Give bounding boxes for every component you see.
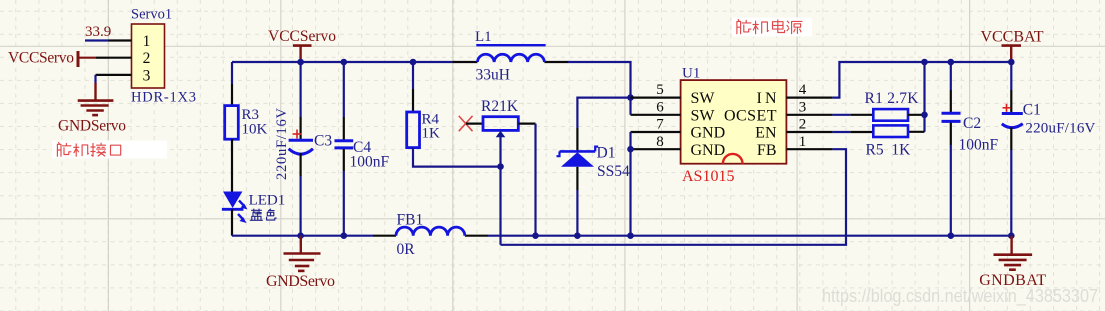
svg-text:6: 6: [656, 99, 664, 115]
U1 designator: [682, 66, 700, 82]
svg-text:IN: IN: [757, 90, 777, 107]
svg-text:VCCServo: VCCServo: [8, 50, 74, 67]
ground rail right segment: [488, 235, 1011, 237]
potentiometer R2 designator/value R21K: [481, 98, 519, 115]
capacitor C3 value 220uF/16V (rotated): [274, 107, 290, 180]
svg-text:C3: C3: [314, 133, 332, 150]
U1 pin 2 lead: [786, 131, 832, 133]
resistor R1 body: [873, 109, 908, 121]
potentiometer R2 body: [483, 117, 518, 131]
power port VCCServo (left) text: [8, 50, 74, 67]
wire VCCServo to pin 2: [96, 57, 109, 59]
U1 pin number 3: [799, 99, 807, 115]
wire U1 IN pin to VCCBAT rail: [832, 62, 1011, 98]
capacitor C3 plus mark: [293, 130, 302, 139]
wire pin 3 to ground: [94, 75, 96, 83]
svg-text:FB: FB: [757, 142, 777, 159]
white highlight band behind 舵机电源: [732, 18, 812, 37]
wire R1 to VCC column: [908, 114, 925, 116]
svg-text:FB1: FB1: [397, 211, 424, 228]
inductor L1 designator: [475, 29, 492, 45]
svg-text:R5 1K: R5 1K: [866, 142, 912, 159]
watermark: [822, 286, 1098, 307]
svg-text:3: 3: [799, 99, 807, 115]
svg-text:4: 4: [799, 82, 807, 98]
Servo1 pin number 3: [143, 67, 151, 84]
Servo1 pin number 1: [143, 33, 151, 50]
junction U1 pin8/GND column: [627, 146, 634, 153]
resistor R1 label R1 2.7K: [865, 90, 920, 107]
wire R2 wiper down to FB net: [499, 136, 501, 245]
svg-text:33.9: 33.9: [85, 24, 111, 40]
U1 pin name IN: [757, 90, 777, 107]
svg-text:7: 7: [656, 117, 664, 133]
power port VCCBAT: [1002, 46, 1022, 62]
svg-text:SS54: SS54: [597, 163, 630, 180]
U1 part number AS1015: [682, 168, 734, 185]
wire C3 to bottom rail: [300, 153, 302, 236]
svg-text:2: 2: [143, 50, 151, 67]
R2 right lead: [518, 122, 535, 124]
svg-text:SW: SW: [691, 90, 716, 107]
wire top rail VCCServo: [232, 61, 452, 63]
white highlight band behind 舵机接口: [52, 141, 167, 159]
svg-text:OCSET: OCSET: [724, 107, 777, 124]
ground net text GNDBAT: [979, 272, 1046, 289]
U1 pin number 5: [656, 82, 664, 98]
capacitor C1 polarized symbol: [1002, 114, 1023, 128]
junction C2/ground rail: [948, 232, 955, 239]
R2 left lead: [466, 122, 483, 124]
svg-text:100nF: 100nF: [350, 154, 390, 171]
wire OCSET pin to R1: [832, 114, 873, 116]
ground rail left segment: [232, 235, 373, 237]
resistor R3 value 10K: [242, 122, 268, 138]
U1 pin name GND: [691, 142, 726, 159]
wire rail down to C1: [1010, 62, 1012, 112]
inductor L1 coil: [477, 54, 544, 62]
svg-text:10K: 10K: [242, 122, 268, 138]
U1 pin name GND: [691, 125, 726, 142]
wire net 33.9 to pin 1: [85, 39, 109, 41]
junction R1/VCC column: [921, 112, 928, 119]
svg-text:EN: EN: [755, 125, 777, 142]
svg-text:C2: C2: [963, 115, 981, 132]
U1 pin number 2: [799, 117, 807, 133]
connector Servo1 body: [132, 24, 165, 88]
svg-text:GND: GND: [691, 125, 726, 142]
capacitor C1 value 220uF/16V: [1025, 121, 1095, 137]
junction rail/VCCBAT/C1: [1008, 59, 1015, 66]
svg-text:GND: GND: [691, 142, 726, 159]
inductor L1 leads: [452, 61, 568, 63]
svg-text:220uF/16V: 220uF/16V: [1025, 121, 1095, 137]
svg-text:3: 3: [143, 67, 151, 84]
junction C1/GNDBAT: [1008, 232, 1015, 239]
svg-text:5: 5: [656, 82, 664, 98]
ground symbol GNDServo (top-left): [78, 83, 114, 115]
U1 pin 6 lead: [631, 114, 681, 116]
U1 pin 5 lead: [631, 96, 681, 98]
junction R4/R2-wiper: [497, 163, 504, 170]
U1 pin name SW: [691, 107, 716, 124]
wire VCC column down to R5: [908, 62, 925, 132]
svg-text:VCCBAT: VCCBAT: [981, 29, 1044, 46]
wire D1 anode to ground rail: [576, 190, 578, 236]
ground net text GNDServo (top-left): [58, 118, 126, 135]
junction rail/C2: [948, 59, 955, 66]
net label 33.9: [85, 24, 111, 40]
U1 pin name FB: [757, 142, 777, 159]
svg-text:Servo1: Servo1: [131, 7, 172, 23]
resistor R3 body: [225, 106, 239, 140]
svg-text:GNDServo: GNDServo: [58, 118, 126, 135]
U1 pin number 7: [656, 117, 664, 133]
title text 舵机电源 (servo power): [737, 20, 802, 34]
Servo1 pin number 2: [143, 50, 151, 67]
power port VCCServo (top): [293, 46, 312, 62]
resistor R4 value 1K: [422, 125, 441, 141]
U1 pin number 4: [799, 82, 807, 98]
U1 pin number 6: [656, 99, 664, 115]
svg-text:1K: 1K: [422, 125, 441, 141]
junction R2/ground rail: [532, 232, 539, 239]
wire FB pin to lower FB net: [501, 149, 847, 245]
wire C2 to ground rail: [950, 123, 952, 236]
connector Servo1 designator label: [131, 7, 172, 23]
junction ground rail/C3: [297, 232, 304, 239]
junction on rail at R4: [410, 59, 417, 66]
D1 anode lead: [576, 167, 578, 190]
wire EN pin to R5: [832, 131, 873, 133]
svg-text:C1: C1: [1023, 102, 1041, 119]
connector Servo1 footprint label HDR-1X3: [131, 90, 196, 106]
resistor R3 designator: [242, 107, 260, 123]
op IC U1 body: [681, 80, 787, 164]
wire rail corner down to R3: [231, 62, 233, 106]
Servo1 pin 2 lead: [109, 57, 132, 59]
svg-text:GNDServo: GNDServo: [266, 273, 335, 290]
svg-text:AS1015: AS1015: [682, 168, 734, 185]
wire R2 right terminal to ground rail: [534, 124, 536, 236]
power port VCCServo (top) text: [268, 28, 336, 45]
svg-text:LED1: LED1: [249, 192, 286, 208]
svg-text:U1: U1: [682, 66, 700, 82]
junction GND column/ground rail: [627, 232, 634, 239]
U1 pin name EN: [755, 125, 777, 142]
power port VCCServo (left): [78, 51, 96, 67]
svg-text:1: 1: [799, 134, 807, 150]
svg-text:HDR-1X3: HDR-1X3: [131, 90, 196, 106]
svg-text:100nF: 100nF: [959, 137, 999, 154]
wire L1 to SW node: [568, 62, 631, 115]
resistor R4 body: [407, 112, 420, 148]
junction rail/R1R5 column: [921, 59, 928, 66]
LED LED1 value 蓝色 (blue): [250, 209, 276, 220]
wire rail down to C2: [950, 62, 952, 112]
svg-text:https://blog.csdn.net/weixin_4: https://blog.csdn.net/weixin_43853307: [822, 286, 1098, 307]
power port VCCBAT text: [981, 29, 1044, 46]
junction ground rail/C4: [341, 232, 348, 239]
wire VCC rail down to C3: [300, 62, 302, 140]
svg-text:SW: SW: [691, 107, 716, 124]
FB1 value 0R: [397, 241, 416, 258]
inductor L1 graphic line: [476, 44, 545, 46]
resistor R5 body: [873, 125, 908, 137]
wire C1 to ground rail: [1010, 128, 1012, 236]
wire U1 GND pins to ground rail: [629, 132, 631, 236]
LED LED1 designator: [249, 192, 286, 208]
U1 red arc marker: [723, 154, 743, 164]
svg-text:VCCServo: VCCServo: [268, 28, 336, 45]
junction on rail at VCCServo/C3: [297, 59, 304, 66]
schottky diode D1 symbol: [557, 147, 599, 167]
capacitor C2 value 100nF: [959, 137, 999, 154]
svg-text:2: 2: [799, 117, 807, 133]
ferrite bead FB1 coil: [396, 227, 465, 236]
FB1 designator: [397, 211, 424, 228]
U1 pin number 1: [799, 134, 807, 150]
wire R3 to LED1: [231, 139, 233, 191]
wire LED1 to bottom rail: [231, 209, 233, 235]
svg-text:R3: R3: [242, 107, 260, 123]
U1 pin 7 lead: [631, 131, 681, 133]
U1 pin name OCSET: [724, 107, 777, 124]
no-ERC marker (red X) on R2 pin 1: [459, 116, 473, 131]
capacitor C1 plus mark: [1003, 104, 1011, 112]
wire R4 to R2 wiper node: [413, 148, 501, 167]
svg-text:R1 2.7K: R1 2.7K: [865, 90, 920, 107]
wire SW node to D1 cathode: [577, 98, 630, 128]
U1 pin 3 lead: [786, 114, 832, 116]
U1 pin 4 lead: [786, 96, 832, 98]
junction D1/ground rail: [574, 232, 581, 239]
junction on rail at C4: [341, 59, 348, 66]
capacitor C2 symbol: [942, 113, 961, 121]
junction SW node pin5/D1: [627, 94, 634, 101]
Servo1 pin 1 lead: [109, 39, 132, 41]
svg-text:8: 8: [656, 134, 664, 150]
capacitor C1 designator: [1023, 102, 1041, 119]
LED LED1 symbol: [222, 192, 248, 224]
svg-text:220uF/16V: 220uF/16V: [274, 107, 290, 180]
ferrite bead FB1 leads: [373, 235, 488, 237]
svg-text:L1: L1: [475, 29, 492, 45]
R2 wiper arrow: [496, 131, 506, 138]
wire C4 to bottom rail: [343, 149, 345, 236]
text 舵机接口 (servo interface): [57, 143, 120, 157]
capacitor C4 value 100nF: [350, 154, 390, 171]
U1 pin 1 lead: [786, 148, 832, 150]
capacitor C4 symbol: [335, 141, 354, 148]
capacitor C2 designator: [963, 115, 981, 132]
ground symbol GNDBAT: [994, 236, 1033, 270]
svg-text:D1: D1: [597, 144, 616, 161]
capacitor C4 designator: [353, 139, 371, 156]
ground net text GNDServo (bottom): [266, 273, 335, 290]
resistor R4 designator: [422, 111, 440, 127]
D1 cathode lead: [576, 128, 578, 151]
wire VCC rail down to R4: [412, 62, 414, 112]
capacitor C3 designator: [314, 133, 332, 150]
wire VCC rail down to C4: [343, 62, 345, 140]
svg-text:1: 1: [143, 33, 151, 50]
svg-text:33uH: 33uH: [476, 67, 510, 84]
U1 pin number 8: [656, 134, 664, 150]
ground symbol GNDServo (bottom): [284, 236, 321, 271]
D1 designator: [597, 144, 616, 161]
svg-text:0R: 0R: [397, 241, 416, 258]
Servo1 pin 3 lead: [96, 74, 132, 76]
inductor L1 value 33uH: [476, 67, 510, 84]
svg-text:R21K: R21K: [481, 98, 519, 115]
resistor R5 label R5 1K: [866, 142, 912, 159]
capacitor C3 polarized symbol: [289, 140, 313, 154]
D1 value SS54: [597, 163, 630, 180]
U1 pin name SW: [691, 90, 716, 107]
U1 pin 8 lead: [631, 148, 681, 150]
